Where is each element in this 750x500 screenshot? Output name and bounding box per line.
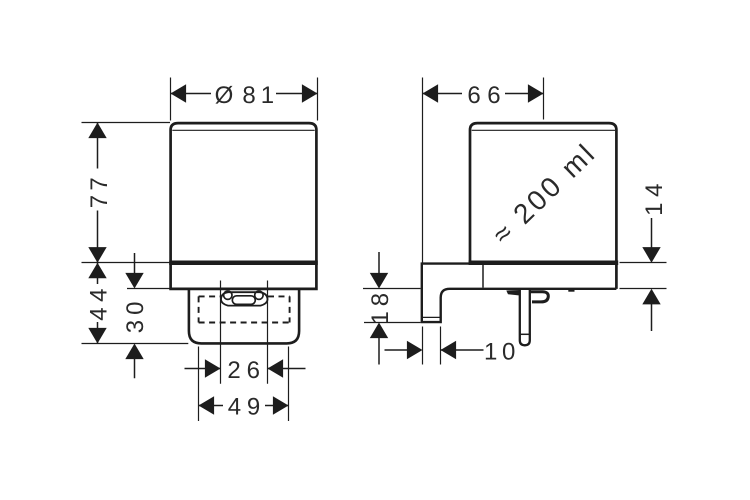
svg-text:18: 18: [367, 293, 394, 325]
svg-text:44: 44: [86, 289, 113, 321]
svg-text:14: 14: [641, 184, 668, 216]
svg-text:66: 66: [467, 82, 500, 109]
svg-text:30: 30: [122, 302, 149, 334]
svg-text:Ø81: Ø81: [215, 82, 274, 109]
svg-text:10: 10: [484, 338, 515, 365]
svg-text:≈ 200 ml: ≈ 200 ml: [486, 137, 602, 250]
svg-text:77: 77: [86, 177, 113, 208]
svg-text:26: 26: [227, 357, 260, 384]
svg-text:49: 49: [228, 393, 261, 420]
